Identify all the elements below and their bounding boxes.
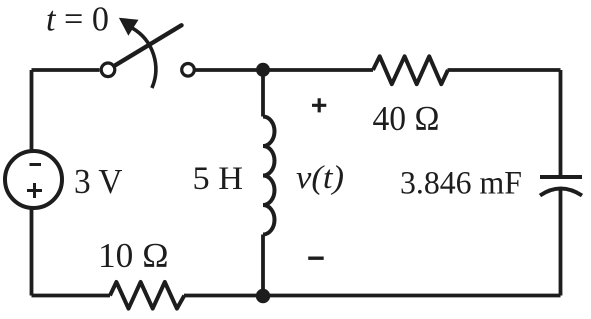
wire bottom-left horizontal [32, 294, 111, 298]
label minus polarity of v(t) [308, 257, 324, 260]
inductor L1 coil [263, 117, 275, 235]
voltage source minus sign [30, 163, 42, 166]
inductor L1 top lead wire [261, 70, 265, 117]
voltage source plus sign [27, 183, 42, 198]
capacitor C1 straight plate [540, 175, 582, 179]
wire bottom middle segment [184, 294, 263, 298]
svg-text:t = 0: t = 0 [46, 0, 109, 39]
node dot top junction [256, 63, 270, 77]
switch S1 blade [115, 25, 181, 65]
resistor R 10 ohm zigzag [110, 282, 184, 309]
node dot bottom junction [256, 289, 270, 303]
switch S1 right terminal circle [182, 64, 195, 77]
wire left rail top segment [30, 70, 34, 152]
svg-text:3.846 mF: 3.846 mF [400, 166, 522, 202]
switch S1 left terminal circle [101, 63, 115, 77]
svg-text:40 Ω: 40 Ω [373, 99, 440, 138]
svg-text:3 V: 3 V [74, 162, 123, 201]
wire left rail bottom segment [30, 208, 34, 296]
switch S1 motion arc [133, 28, 156, 88]
wire top-left horizontal [32, 68, 100, 72]
wire right rail top segment [559, 70, 563, 177]
resistor R 40 ohm zigzag [373, 56, 448, 84]
wire bottom right segment [263, 294, 561, 298]
label plus polarity of v(t) [312, 98, 326, 112]
capacitor C1 curved plate [540, 189, 582, 196]
switch S1 arrowhead [120, 19, 137, 35]
svg-text:v(t): v(t) [296, 160, 344, 196]
svg-text:10 Ω: 10 Ω [98, 236, 169, 275]
voltage source V1 circle [5, 151, 62, 208]
wire top middle segment [263, 68, 373, 72]
svg-text:5 H: 5 H [193, 161, 244, 197]
wire right rail bottom segment [559, 191, 563, 296]
inductor L1 bottom lead wire [261, 235, 265, 296]
wire top right segment [448, 68, 561, 72]
wire switch to top node [195, 68, 263, 72]
